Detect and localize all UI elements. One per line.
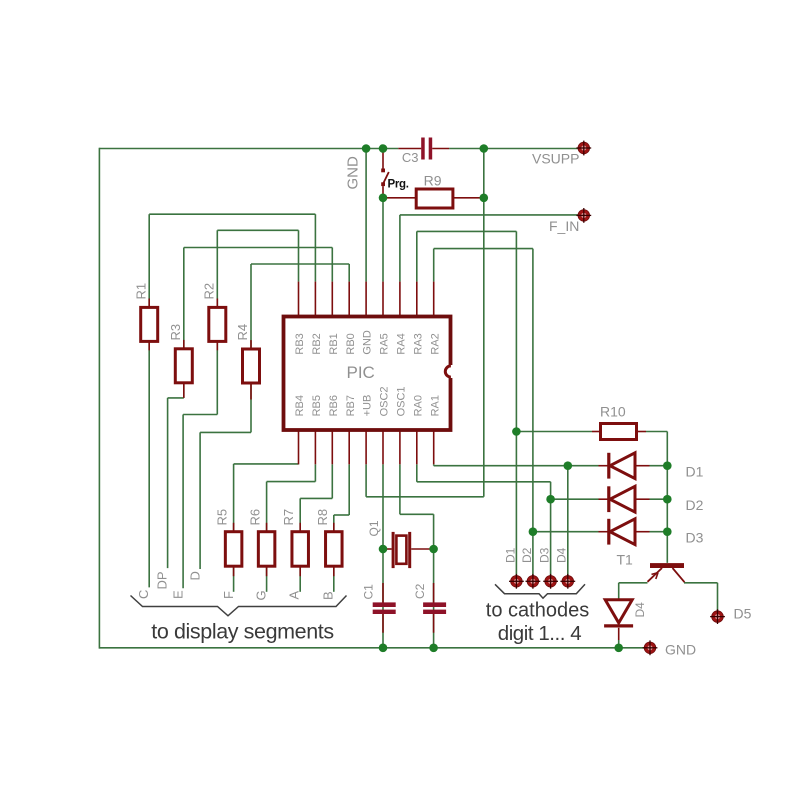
svg-text:D1: D1 — [503, 547, 517, 563]
svg-text:E: E — [171, 590, 186, 599]
svg-text:G: G — [254, 590, 269, 600]
svg-text:RB2: RB2 — [311, 333, 323, 354]
svg-text:RA1: RA1 — [429, 395, 441, 416]
svg-text:C1: C1 — [362, 584, 376, 600]
svg-text:RB4: RB4 — [294, 395, 306, 416]
svg-text:DP: DP — [155, 571, 170, 589]
svg-text:D2: D2 — [686, 497, 704, 513]
svg-text:R5: R5 — [215, 509, 230, 526]
svg-text:D1: D1 — [686, 464, 704, 480]
svg-text:D4: D4 — [555, 547, 569, 563]
svg-text:RA2: RA2 — [429, 333, 441, 354]
svg-text:Prg.: Prg. — [388, 179, 409, 191]
svg-text:C: C — [136, 590, 151, 599]
svg-text:C2: C2 — [413, 583, 427, 599]
svg-text:RA4: RA4 — [396, 333, 408, 354]
svg-text:RB6: RB6 — [328, 395, 340, 416]
svg-text:RA0: RA0 — [412, 395, 424, 416]
svg-text:F: F — [221, 591, 236, 599]
svg-text:R6: R6 — [248, 509, 263, 526]
svg-text:RB0: RB0 — [345, 333, 357, 354]
svg-text:F_IN: F_IN — [549, 218, 579, 234]
svg-text:RB1: RB1 — [328, 333, 340, 354]
svg-text:Q1: Q1 — [367, 520, 381, 536]
svg-text:to display segments: to display segments — [151, 620, 333, 644]
svg-text:R3: R3 — [168, 324, 183, 341]
svg-text:R9: R9 — [424, 173, 442, 189]
svg-text:to cathodes: to cathodes — [486, 599, 589, 621]
svg-text:D3: D3 — [686, 530, 704, 546]
svg-text:R7: R7 — [281, 509, 296, 526]
svg-text:RA3: RA3 — [412, 333, 424, 354]
svg-text:RB3: RB3 — [294, 333, 306, 354]
svg-text:OSC2: OSC2 — [379, 386, 391, 416]
svg-text:digit 1... 4: digit 1... 4 — [498, 622, 582, 645]
svg-text:A: A — [287, 591, 302, 600]
svg-text:B: B — [321, 591, 336, 600]
svg-text:RA5: RA5 — [379, 333, 391, 354]
svg-text:C3: C3 — [402, 150, 419, 165]
svg-text:GND: GND — [665, 642, 696, 658]
svg-text:D2: D2 — [520, 547, 534, 563]
svg-text:+UB: +UB — [362, 395, 374, 417]
svg-text:R2: R2 — [202, 283, 217, 300]
svg-text:R1: R1 — [134, 283, 149, 300]
svg-text:GND: GND — [362, 330, 374, 355]
svg-text:R8: R8 — [315, 509, 330, 526]
svg-text:VSUPP: VSUPP — [532, 151, 579, 167]
svg-text:D3: D3 — [538, 547, 552, 563]
svg-text:PIC: PIC — [347, 363, 375, 382]
svg-text:RB7: RB7 — [345, 395, 357, 416]
svg-text:T1: T1 — [617, 552, 634, 568]
svg-text:R4: R4 — [235, 324, 250, 341]
svg-text:D5: D5 — [734, 606, 752, 622]
svg-text:D: D — [188, 571, 203, 580]
svg-text:D4: D4 — [633, 602, 647, 618]
svg-text:GND: GND — [345, 156, 362, 190]
svg-text:RB5: RB5 — [311, 395, 323, 416]
svg-text:R10: R10 — [600, 404, 626, 420]
svg-text:OSC1: OSC1 — [396, 386, 408, 416]
